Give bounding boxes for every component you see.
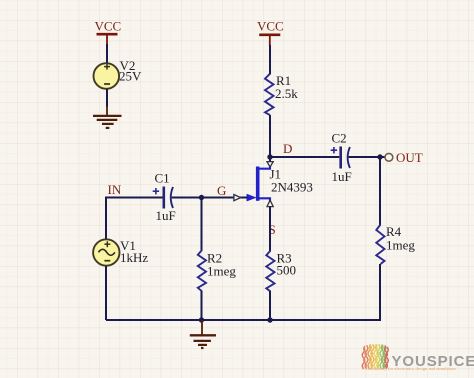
pin arrow source bbox=[267, 200, 273, 207]
wire source to R3 bbox=[269, 207, 271, 251]
wire R2 top bbox=[201, 198, 203, 251]
wire R1 to node D bbox=[269, 115, 271, 157]
wire R4 to rail bbox=[378, 264, 380, 320]
capacitor C2 bbox=[331, 147, 350, 169]
capacitor C1 bbox=[153, 187, 173, 209]
svg-text:IN: IN bbox=[108, 182, 122, 197]
resistor R2 bbox=[198, 250, 206, 291]
wire IN corner to C1 bbox=[106, 198, 163, 240]
wire D to C2 bbox=[270, 156, 339, 158]
power port VCC (right) bbox=[259, 35, 280, 46]
svg-text:1kHz: 1kHz bbox=[120, 250, 148, 265]
svg-text:2N4393: 2N4393 bbox=[271, 180, 313, 195]
svg-text:D: D bbox=[283, 141, 292, 156]
junction R2 rail bbox=[199, 317, 204, 322]
wire V2 to ground bbox=[106, 89, 108, 107]
junction R3 rail bbox=[267, 317, 272, 322]
wire R2 to rail bbox=[201, 291, 203, 320]
wire C1 to G bbox=[172, 197, 202, 199]
transistor J1 drain lead bbox=[257, 167, 270, 169]
terminal OUT bbox=[385, 153, 393, 161]
wire D to drain bbox=[269, 157, 271, 162]
logo icon waves bbox=[362, 344, 388, 368]
wire VCC to V2 bbox=[106, 44, 108, 64]
voltage source V2 bbox=[94, 63, 120, 89]
power port VCC (left) bbox=[97, 34, 118, 45]
wire V1 to rail bbox=[105, 266, 107, 320]
wire R3 to rail bbox=[269, 291, 271, 320]
svg-text:2.5k: 2.5k bbox=[275, 86, 298, 101]
svg-text:VCC: VCC bbox=[257, 19, 284, 34]
transistor J1 channel bar bbox=[256, 167, 260, 201]
ground (bottom center) bbox=[190, 320, 216, 348]
svg-text:1uF: 1uF bbox=[156, 208, 176, 223]
junction node G bbox=[199, 195, 204, 200]
resistor R3 bbox=[266, 251, 274, 292]
svg-text:A community for electronics de: A community for electronics design and s… bbox=[362, 366, 457, 371]
svg-text:500: 500 bbox=[277, 263, 297, 278]
junction node D bbox=[267, 154, 272, 159]
transistor J1 gate arrow bbox=[247, 194, 256, 201]
resistor R4 bbox=[376, 225, 384, 265]
voltage source V1 bbox=[93, 239, 119, 265]
svg-text:VCC: VCC bbox=[95, 19, 122, 34]
wire bottom rail bbox=[106, 319, 380, 321]
pin arrow gate bbox=[234, 195, 241, 201]
junction at R4 top bbox=[377, 154, 382, 159]
svg-text:1uF: 1uF bbox=[332, 169, 352, 184]
wire G to gate bbox=[202, 197, 248, 199]
wire OUT node to R4 bbox=[379, 157, 381, 225]
svg-text:1meg: 1meg bbox=[207, 264, 236, 279]
svg-text:25V: 25V bbox=[119, 69, 142, 84]
svg-text:C2: C2 bbox=[332, 131, 347, 146]
svg-text:1meg: 1meg bbox=[386, 238, 415, 253]
wire VCC to R1 bbox=[269, 45, 271, 75]
transistor J1 source lead bbox=[257, 198, 270, 201]
ground (under V2) bbox=[93, 106, 122, 128]
svg-text:C1: C1 bbox=[155, 171, 170, 186]
svg-text:G: G bbox=[217, 183, 226, 198]
resistor R1 bbox=[265, 74, 274, 115]
wire C2 to OUT bbox=[349, 156, 386, 158]
svg-text:OUT: OUT bbox=[396, 150, 423, 165]
pin arrow drain bbox=[267, 162, 273, 168]
